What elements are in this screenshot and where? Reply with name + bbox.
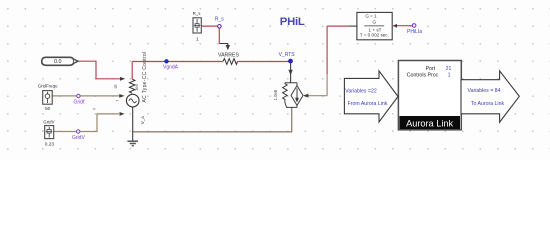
svg-text:PHiLIa: PHiLIa: [407, 29, 422, 35]
svg-text:V: V: [92, 107, 96, 110]
svg-text:AC Type-CC Control: AC Type-CC Control: [142, 52, 148, 103]
svg-text:GridV: GridV: [43, 119, 54, 124]
svg-text:T = 0.002 sec.: T = 0.002 sec.: [360, 33, 389, 38]
svg-text:GridFrequ: GridFrequ: [38, 84, 58, 89]
svg-text:f: f: [115, 100, 119, 101]
svg-text:0.23: 0.23: [45, 142, 55, 148]
svg-text:Variables = 84: Variables = 84: [468, 88, 501, 94]
svg-text:GridV: GridV: [72, 135, 85, 141]
svg-text:To Aurora Link: To Aurora Link: [471, 101, 505, 107]
svg-text:1R: 1R: [114, 84, 118, 89]
svg-text:G = 1: G = 1: [365, 14, 377, 19]
svg-text:PHiL: PHiL: [280, 16, 305, 28]
svg-text:VgndA: VgndA: [163, 64, 179, 70]
svg-text:21: 21: [446, 66, 452, 72]
svg-text:VARRES: VARRES: [218, 53, 239, 59]
svg-text:V_a: V_a: [140, 116, 145, 125]
svg-text:Port: Port: [426, 66, 436, 72]
svg-text:Aurora Link: Aurora Link: [406, 119, 453, 129]
svg-text:From Aurora Link: From Aurora Link: [348, 101, 388, 107]
svg-text:1e4: 1e4: [134, 83, 139, 91]
svg-text:50: 50: [45, 106, 51, 112]
svg-text:V_RTS: V_RTS: [279, 52, 296, 58]
svg-text:1: 1: [196, 37, 199, 43]
svg-text:Gridf: Gridf: [73, 100, 84, 106]
svg-text:R_s: R_s: [193, 11, 202, 16]
svg-text:R_s: R_s: [215, 16, 224, 22]
svg-text:G: G: [372, 19, 376, 25]
svg-text:1: 1: [448, 73, 451, 79]
svg-text:0.0: 0.0: [54, 59, 62, 65]
svg-text:Variables =22: Variables =22: [345, 88, 377, 94]
svg-text:1.0e8: 1.0e8: [273, 89, 278, 100]
svg-text:Controls Proc: Controls Proc: [407, 73, 439, 79]
